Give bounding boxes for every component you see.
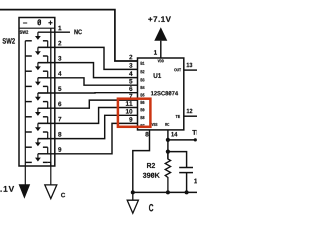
- wire SW2 pin 2 to U1 pin 3: [38, 47, 138, 69]
- pin number 14: [171, 132, 177, 136]
- node TR junction: [166, 138, 170, 142]
- label C (ground): [149, 204, 153, 211]
- pin number 2: [58, 41, 61, 46]
- wire U1 pin 8 VSS to ground: [133, 130, 150, 193]
- switch SW2 wiper 1: [25, 32, 47, 41]
- wire U1 pin 13 OUT: [184, 69, 197, 71]
- pin label B9: [141, 108, 145, 111]
- resistor R2: [165, 152, 170, 193]
- SW2 internal label: [20, 30, 29, 33]
- node resistor bottom: [166, 190, 170, 194]
- wire contact 8 to pin 9: [38, 147, 48, 154]
- node cap branch junction: [166, 150, 170, 154]
- pin number 4: [58, 71, 61, 75]
- wire contact 9 to ground: [48, 162, 51, 185]
- pin number 4 (U1): [129, 71, 133, 75]
- wire to TR: [168, 139, 195, 141]
- wire SW2 pin 1 NC stub: [38, 31, 70, 33]
- pin number 1: [58, 26, 61, 30]
- wire SW2 inner right rail: [50, 28, 52, 166]
- pin number 7 (U1): [129, 94, 132, 98]
- wire SW2 pin 6 to U1 pin 7: [38, 100, 138, 108]
- pin number 10 (U1): [126, 109, 132, 114]
- switch SW2 wiper 4: [25, 78, 47, 87]
- pin number 9 (U1): [129, 117, 132, 122]
- value 10 (cap): [194, 179, 201, 184]
- label TR: [192, 130, 201, 135]
- pin number 5: [58, 87, 61, 92]
- pin number 8: [145, 132, 148, 137]
- switch SW2 wiper 5: [25, 93, 47, 102]
- op IC U1 body: [138, 58, 184, 130]
- ground C: [127, 192, 138, 213]
- pin number 6: [58, 102, 61, 107]
- pin label B8: [141, 116, 145, 119]
- wire top bus to U1 pin 2: [0, 10, 138, 61]
- pin number 3 (U1): [129, 63, 132, 68]
- node TR wire end: [194, 138, 197, 141]
- wire SW2 pin 9 to U1 pin 9: [38, 123, 138, 153]
- power 7.1V down arrow: [19, 184, 31, 199]
- wire contact 1 to pin 2: [38, 41, 48, 48]
- label +7.1V: [148, 16, 171, 22]
- pin number 1 (U1 VDD): [154, 50, 157, 54]
- wire SW2 common left rail: [24, 41, 26, 185]
- power +7.1V supply arrow: [154, 27, 167, 58]
- pin number 12: [187, 109, 193, 113]
- pin number 3: [58, 56, 61, 61]
- switch SW2 wiper 8: [25, 139, 47, 148]
- wire contact 7 to pin 8: [38, 132, 48, 139]
- wire SW2 pin 7 to U1 pin 11: [38, 108, 138, 124]
- pin number 9: [58, 147, 61, 152]
- switch SW2 wiper 9: [25, 154, 47, 163]
- pin label B2: [141, 70, 145, 73]
- pin label VSS: [152, 123, 158, 126]
- wire contact 2 to pin 3: [38, 56, 48, 63]
- pin label B6: [141, 101, 145, 104]
- wire ground rail: [133, 191, 197, 193]
- switch SW2 wiper 7: [25, 123, 47, 132]
- SW2 minus zero plus header: [23, 19, 52, 25]
- switch SW2 body: [19, 18, 55, 167]
- label C (switch ground): [61, 193, 65, 198]
- pin number 5 (U1): [129, 79, 132, 84]
- pin label B7: [141, 124, 145, 127]
- SW2 reference designator: [3, 38, 15, 44]
- pin label RC: [165, 123, 169, 126]
- wire contact 3 to pin 4: [38, 71, 48, 78]
- pin label VDD: [158, 60, 164, 63]
- wire SW2 pin 3 to U1 pin 4: [38, 63, 138, 78]
- label R2: [147, 163, 155, 168]
- wire contact 6 to pin 7: [38, 117, 48, 124]
- pin number 11 (U1): [126, 101, 132, 105]
- pin number 8: [58, 132, 61, 137]
- wire contact 5 to pin 6: [38, 102, 48, 109]
- pin label TE: [176, 115, 180, 118]
- pin label B4: [141, 86, 145, 89]
- pin label B3: [141, 78, 145, 81]
- wire SW2 pin 5 to U1 pin 6: [38, 92, 138, 94]
- capacitor C1: [179, 168, 193, 193]
- value 12SC8074: [151, 91, 178, 95]
- wire SW2 pin 8 to U1 pin 10: [38, 115, 138, 138]
- switch SW2 wiper 3: [25, 63, 47, 72]
- pin label B1: [141, 62, 145, 65]
- pin number 2 (U1): [129, 55, 132, 60]
- node cap bottom: [185, 190, 189, 194]
- switch SW2 wiper 2: [25, 47, 47, 56]
- wire cap branch: [168, 152, 187, 168]
- switch SW2 wiper 6: [25, 108, 47, 117]
- label U1: [154, 73, 162, 78]
- pin label B5: [141, 94, 145, 97]
- pin label OUT: [174, 68, 181, 71]
- wire U1 pin 12 TE: [184, 115, 197, 117]
- pin number 7: [58, 117, 61, 121]
- highlight box pins 11 10 9: [118, 99, 150, 127]
- node ground junction: [131, 190, 135, 194]
- value 390K: [143, 173, 160, 178]
- pin number 6 (U1): [129, 86, 132, 91]
- pin number 13: [187, 63, 193, 67]
- label 7.1V: [0, 186, 14, 192]
- wire contact 4 to pin 5: [38, 86, 48, 93]
- ground C (switch common): [45, 185, 57, 199]
- wire SW2 pin 4 to U1 pin 5: [38, 78, 138, 85]
- label NC: [74, 30, 82, 35]
- wire U1 pin 14 RC node: [167, 130, 169, 159]
